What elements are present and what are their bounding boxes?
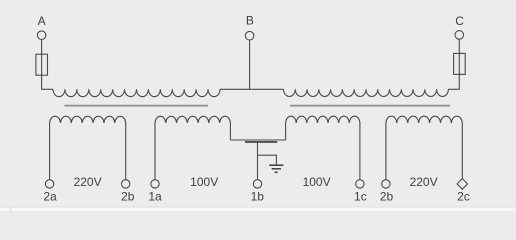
terminal 2a circle bbox=[45, 180, 53, 188]
label 220V left bbox=[74, 175, 102, 189]
svg-text:C: C bbox=[455, 14, 464, 28]
terminal 1a circle bbox=[151, 180, 159, 188]
secondary winding 2b-2c bbox=[386, 116, 462, 179]
fuse F1 bbox=[36, 54, 48, 75]
bottom panel edge bbox=[0, 207, 516, 211]
secondary winding 2a-2b bbox=[50, 116, 126, 179]
terminal 2c diamond bbox=[457, 179, 467, 190]
label 100V right bbox=[303, 175, 331, 189]
wire C to primary bbox=[448, 39, 459, 89]
label 1b bbox=[251, 190, 265, 204]
svg-text:220V: 220V bbox=[74, 175, 102, 189]
fuse F2 bbox=[454, 53, 466, 74]
wire A to primary bbox=[42, 40, 53, 90]
terminal A circle bbox=[37, 31, 46, 40]
svg-text:100V: 100V bbox=[303, 175, 331, 189]
terminal A label bbox=[38, 14, 46, 28]
svg-text:B: B bbox=[246, 14, 254, 28]
wire secondary centre bus bbox=[230, 139, 285, 141]
wire primary centre bus bbox=[220, 88, 284, 90]
primary winding right section bbox=[284, 89, 449, 96]
terminal 1b circle bbox=[253, 180, 261, 188]
svg-text:1c: 1c bbox=[354, 190, 367, 204]
secondary winding 1a-1b bbox=[155, 116, 230, 179]
svg-text:220V: 220V bbox=[410, 175, 438, 189]
terminal B label bbox=[246, 14, 254, 28]
label 2b bbox=[121, 190, 135, 204]
terminal B circle bbox=[245, 31, 254, 40]
label 220V right bbox=[410, 175, 438, 189]
svg-text:2c: 2c bbox=[457, 190, 470, 204]
terminal C circle bbox=[455, 31, 464, 40]
label 100V left bbox=[190, 175, 218, 189]
label 1c bbox=[354, 190, 367, 204]
label 2a bbox=[43, 190, 57, 204]
label 2c bbox=[457, 190, 470, 204]
core line left bbox=[65, 105, 209, 107]
wire tap to 1b bbox=[257, 142, 259, 180]
ground bbox=[269, 165, 283, 172]
svg-text:2a: 2a bbox=[43, 190, 57, 204]
terminal 2b circle bbox=[122, 180, 130, 188]
centre tap bar bbox=[245, 141, 277, 143]
svg-text:A: A bbox=[38, 14, 46, 28]
terminal 1c circle bbox=[356, 180, 364, 188]
primary winding left section bbox=[53, 89, 220, 96]
wire B to primary bbox=[249, 40, 251, 89]
svg-text:2b: 2b bbox=[380, 190, 394, 204]
svg-text:1b: 1b bbox=[251, 190, 265, 204]
label 2b right bbox=[380, 190, 394, 204]
wire to ground bbox=[258, 155, 277, 164]
svg-text:100V: 100V bbox=[190, 175, 218, 189]
secondary winding 1b-1c bbox=[286, 116, 360, 179]
core line right bbox=[290, 105, 450, 107]
svg-text:1a: 1a bbox=[148, 190, 162, 204]
terminal C label bbox=[455, 14, 464, 28]
svg-text:2b: 2b bbox=[121, 190, 135, 204]
terminal 2b right circle bbox=[382, 180, 390, 188]
label 1a bbox=[148, 190, 162, 204]
